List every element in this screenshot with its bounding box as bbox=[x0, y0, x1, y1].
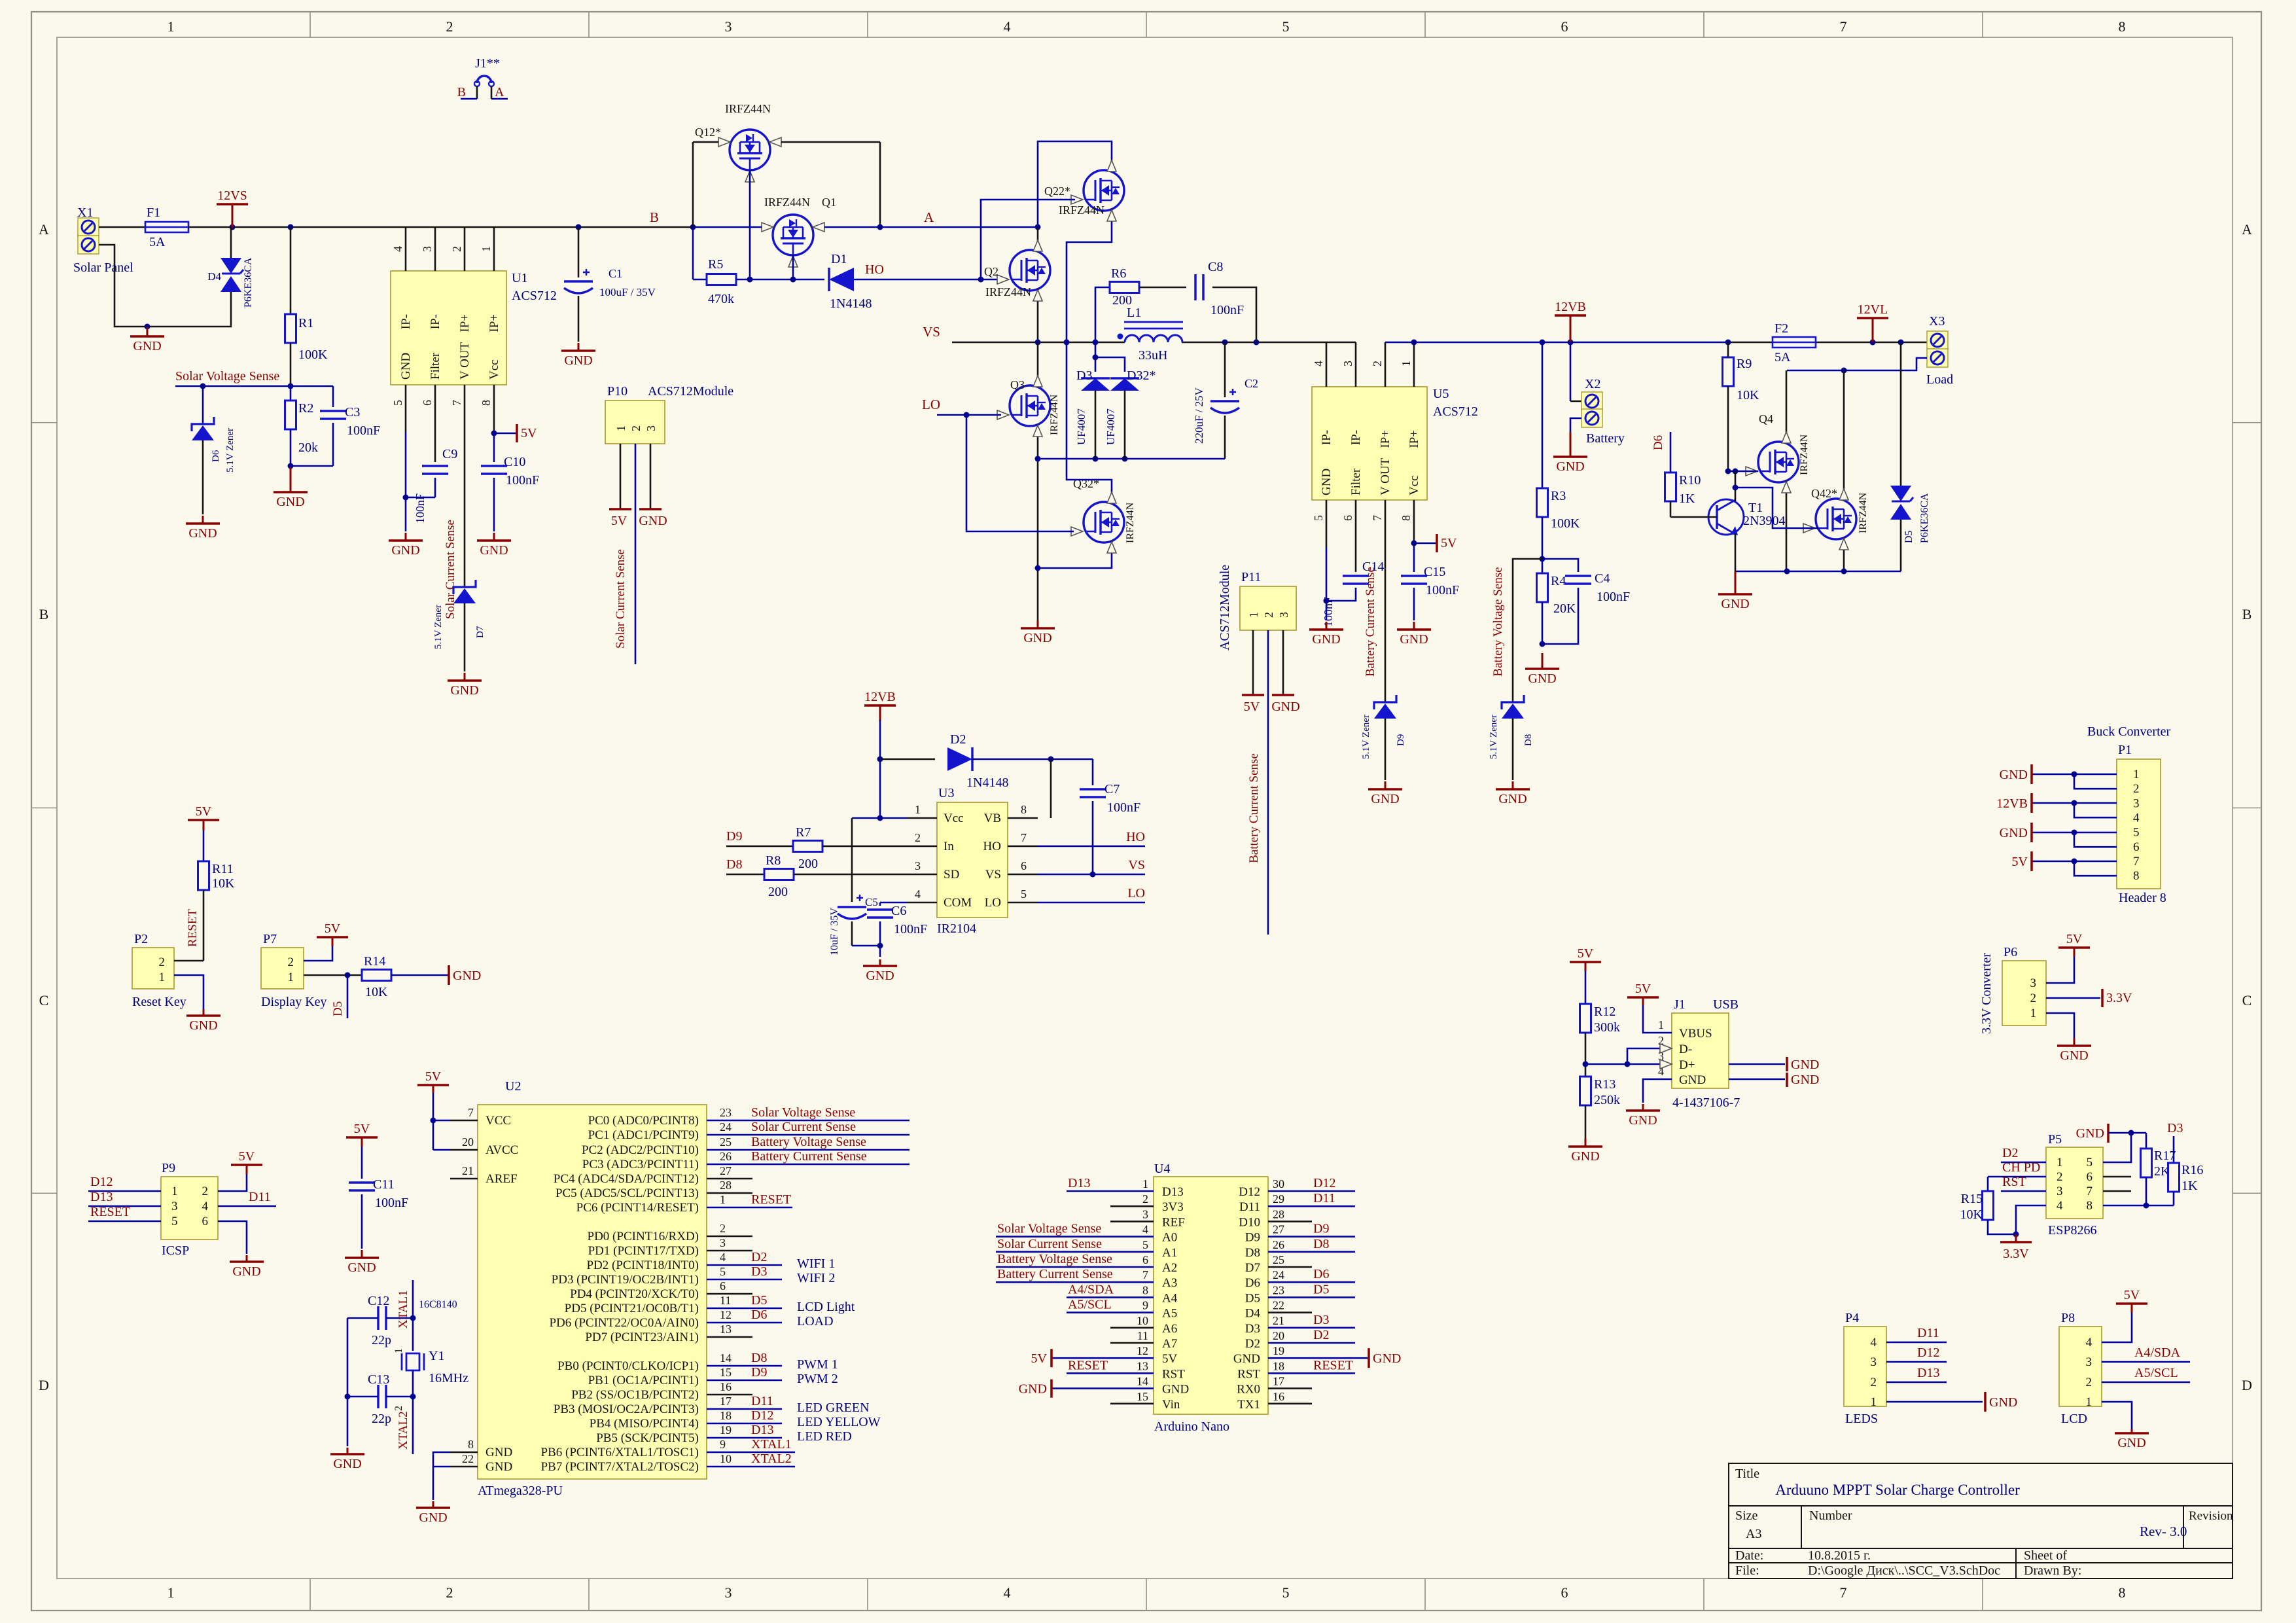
svg-text:21: 21 bbox=[1273, 1314, 1284, 1327]
svg-text:A: A bbox=[39, 221, 49, 238]
svg-text:18: 18 bbox=[1273, 1359, 1284, 1372]
U5 pin 5 GND bbox=[1326, 500, 1328, 547]
svg-text:7: 7 bbox=[1371, 515, 1384, 521]
svg-text:D12: D12 bbox=[1313, 1176, 1335, 1190]
svg-text:21: 21 bbox=[462, 1164, 474, 1177]
ground GND below P8 bbox=[2131, 1429, 2133, 1433]
svg-text:USB: USB bbox=[1713, 997, 1739, 1012]
svg-text:100nF: 100nF bbox=[1597, 590, 1630, 604]
svg-text:7: 7 bbox=[1840, 1584, 1847, 1601]
svg-text:PB1 (OC1A/PCINT1): PB1 (OC1A/PCINT1) bbox=[588, 1374, 699, 1387]
IC U4 Arduino Nano bbox=[1154, 1177, 1268, 1414]
connector P9 ICSP bbox=[161, 1177, 218, 1240]
svg-text:PC6 (PCINT14/RESET): PC6 (PCINT14/RESET) bbox=[576, 1201, 699, 1215]
svg-text:100nF: 100nF bbox=[1107, 800, 1140, 815]
svg-text:D11: D11 bbox=[1313, 1191, 1335, 1205]
ground GND under C15 bbox=[1413, 622, 1415, 630]
svg-text:D2: D2 bbox=[751, 1250, 767, 1264]
IC U5 ACS712 bbox=[1312, 387, 1427, 500]
svg-text:L1: L1 bbox=[1127, 306, 1141, 320]
MOSFET Q42 IRFZ44N bbox=[1816, 499, 1856, 539]
svg-text:10K: 10K bbox=[212, 876, 235, 891]
svg-text:IP-: IP- bbox=[1320, 430, 1333, 445]
svg-text:10uF / 35V: 10uF / 35V bbox=[829, 908, 840, 955]
svg-text:Buck Converter: Buck Converter bbox=[2087, 724, 2171, 739]
svg-text:GND: GND bbox=[2076, 1126, 2104, 1141]
svg-text:3: 3 bbox=[171, 1200, 178, 1213]
svg-text:5V: 5V bbox=[425, 1069, 442, 1084]
svg-text:3.3V Converter: 3.3V Converter bbox=[1979, 953, 1994, 1034]
wire Q1 channel on main rail bbox=[759, 226, 762, 228]
svg-text:2: 2 bbox=[288, 955, 294, 969]
svg-text:LO: LO bbox=[985, 896, 1001, 910]
U5 pin 2 IP+ bbox=[1385, 342, 1386, 387]
svg-text:17: 17 bbox=[1273, 1375, 1284, 1388]
svg-text:PB5 (SCK/PCINT5): PB5 (SCK/PCINT5) bbox=[596, 1431, 699, 1445]
svg-text:XTAL1: XTAL1 bbox=[397, 1290, 410, 1329]
svg-text:C2: C2 bbox=[1245, 377, 1258, 390]
ground GND below P2 bbox=[203, 1009, 205, 1016]
svg-text:22p: 22p bbox=[372, 1412, 391, 1426]
MOSFET Q2 IRFZ44N bbox=[1010, 250, 1050, 291]
svg-text:GND: GND bbox=[189, 1018, 217, 1033]
svg-text:PB2 (SS/OC1B/PCINT2): PB2 (SS/OC1B/PCINT2) bbox=[571, 1388, 699, 1402]
svg-text:5.1V Zener: 5.1V Zener bbox=[433, 605, 444, 649]
svg-text:Q3: Q3 bbox=[1010, 378, 1025, 391]
svg-text:200: 200 bbox=[1112, 293, 1132, 308]
svg-text:Q4: Q4 bbox=[1759, 412, 1773, 425]
svg-text:GND: GND bbox=[1629, 1113, 1657, 1128]
svg-text:GND: GND bbox=[1312, 632, 1340, 647]
svg-text:VB: VB bbox=[984, 811, 1001, 825]
svg-text:Solar Current Sense: Solar Current Sense bbox=[614, 549, 627, 649]
svg-text:HO: HO bbox=[865, 262, 884, 277]
svg-text:2N3904: 2N3904 bbox=[1743, 514, 1785, 528]
svg-text:5: 5 bbox=[2087, 1156, 2093, 1169]
net label D11 wire at P4 bbox=[1886, 1342, 1947, 1344]
svg-text:LCD Light: LCD Light bbox=[797, 1300, 855, 1314]
wire P9 pin6 to ground bbox=[218, 1221, 247, 1254]
svg-text:P5: P5 bbox=[2048, 1132, 2062, 1147]
svg-text:ACS712Module: ACS712Module bbox=[1218, 565, 1232, 651]
svg-text:1N4148: 1N4148 bbox=[966, 776, 1008, 790]
svg-text:D8: D8 bbox=[751, 1351, 767, 1365]
svg-text:IRFZ44N: IRFZ44N bbox=[1858, 492, 1869, 533]
wire P8 pin4 to 5V bbox=[2102, 1313, 2132, 1342]
wire X2 pin2 to ground bbox=[1570, 418, 1581, 432]
P1 even pin wire bbox=[2074, 861, 2117, 876]
svg-text:6: 6 bbox=[2087, 1170, 2093, 1184]
title block bbox=[1729, 1463, 2233, 1578]
svg-text:28: 28 bbox=[720, 1179, 732, 1192]
net RESET wire from R11 to P2 bbox=[203, 890, 205, 961]
P1 odd pin wire with GND bbox=[2032, 832, 2117, 834]
svg-text:11: 11 bbox=[1137, 1329, 1148, 1342]
svg-text:8: 8 bbox=[1142, 1283, 1148, 1296]
svg-text:C3: C3 bbox=[345, 405, 360, 419]
svg-text:RESET: RESET bbox=[751, 1192, 791, 1207]
svg-text:PD5 (PCINT21/OC0B/T1): PD5 (PCINT21/OC0B/T1) bbox=[565, 1302, 699, 1315]
svg-text:23: 23 bbox=[720, 1106, 732, 1119]
power 5V at USB VBUS bbox=[1642, 997, 1644, 1005]
svg-text:1: 1 bbox=[480, 246, 493, 252]
resistor R1 100K bbox=[288, 224, 294, 230]
svg-text:TX1: TX1 bbox=[1237, 1398, 1260, 1412]
ground GND below D8 bbox=[1512, 781, 1514, 789]
power 5V at P7 bbox=[332, 937, 334, 946]
svg-text:D2: D2 bbox=[1245, 1337, 1260, 1351]
svg-text:7: 7 bbox=[1021, 831, 1027, 844]
power 5V above R11 bbox=[203, 820, 205, 830]
svg-text:4: 4 bbox=[2057, 1199, 2063, 1213]
connector P1 Buck Converter Header 8 bbox=[2117, 759, 2161, 889]
ground GND below D9 bbox=[1385, 781, 1386, 789]
svg-text:2: 2 bbox=[1142, 1192, 1148, 1205]
svg-text:20k: 20k bbox=[298, 440, 318, 455]
svg-text:1: 1 bbox=[1658, 1018, 1664, 1031]
svg-text:Filter: Filter bbox=[429, 352, 442, 380]
svg-text:5: 5 bbox=[171, 1215, 178, 1228]
resistor R9 10K bbox=[1723, 357, 1734, 386]
svg-text:J1: J1 bbox=[1674, 997, 1686, 1012]
svg-text:C8: C8 bbox=[1208, 260, 1223, 274]
svg-text:U3: U3 bbox=[938, 786, 954, 800]
svg-text:GND: GND bbox=[480, 543, 508, 558]
svg-text:D11: D11 bbox=[1917, 1326, 1939, 1340]
svg-text:Battery Current Sense: Battery Current Sense bbox=[1247, 753, 1261, 863]
power 5V above P8 bbox=[2131, 1304, 2133, 1313]
svg-text:7: 7 bbox=[2087, 1185, 2093, 1198]
MOSFET Q4 IRFZ44N bbox=[1758, 442, 1799, 482]
svg-text:6: 6 bbox=[1561, 1584, 1568, 1601]
svg-text:3: 3 bbox=[1142, 1207, 1148, 1221]
svg-text:10: 10 bbox=[1137, 1314, 1148, 1327]
svg-text:2: 2 bbox=[450, 246, 463, 252]
svg-text:5V: 5V bbox=[325, 921, 341, 936]
wire Q3 drain from VS rail bbox=[1037, 342, 1039, 374]
svg-text:5V: 5V bbox=[1162, 1352, 1178, 1366]
svg-text:A4: A4 bbox=[1162, 1291, 1178, 1305]
U3 pin 3 SD bbox=[907, 874, 937, 876]
svg-text:PC3 (ADC3/PCINT11): PC3 (ADC3/PCINT11) bbox=[582, 1158, 699, 1171]
svg-text:GND: GND bbox=[1528, 671, 1556, 686]
svg-text:GND: GND bbox=[639, 514, 667, 528]
svg-text:D: D bbox=[39, 1377, 49, 1393]
svg-text:Vcc: Vcc bbox=[1407, 475, 1421, 495]
net label D5 wire at P7 bbox=[347, 975, 349, 1018]
svg-text:A0: A0 bbox=[1162, 1231, 1177, 1245]
ground GND right of R14 bbox=[448, 965, 450, 985]
svg-text:D8: D8 bbox=[726, 857, 742, 872]
capacitor C8 100nF snubber bbox=[1139, 287, 1186, 289]
transistor T1 2N3904 bbox=[1708, 499, 1744, 535]
crystal Y1 16MHz bbox=[406, 1353, 419, 1370]
svg-text:RST: RST bbox=[2002, 1175, 2026, 1189]
svg-text:PC4 (ADC4/SDA/PCINT12): PC4 (ADC4/SDA/PCINT12) bbox=[554, 1172, 699, 1186]
connector P8 LCD bbox=[2059, 1327, 2102, 1406]
svg-text:D11: D11 bbox=[1239, 1200, 1260, 1214]
U1 pin 2 IP+ bbox=[464, 227, 466, 271]
svg-text:1: 1 bbox=[168, 18, 175, 35]
ground GND under U1 pin5 bbox=[405, 533, 407, 541]
svg-text:VBUS: VBUS bbox=[1679, 1027, 1712, 1041]
power 3.3V below P5 bbox=[2015, 1234, 2017, 1242]
U5 pin 7 V OUT bbox=[1385, 500, 1386, 547]
svg-text:3: 3 bbox=[1277, 612, 1290, 618]
wire Q4 source to ground rail bbox=[1786, 493, 1788, 571]
svg-text:2: 2 bbox=[629, 425, 643, 431]
svg-text:1: 1 bbox=[168, 1584, 175, 1601]
capacitor C13 22p bbox=[377, 1385, 380, 1408]
wire jumper side A bbox=[491, 98, 508, 100]
svg-text:12VB: 12VB bbox=[864, 690, 896, 704]
capacitor C14 100nF on U5 filter bbox=[1355, 547, 1357, 572]
svg-text:D9: D9 bbox=[1396, 734, 1406, 746]
svg-text:5: 5 bbox=[391, 400, 404, 406]
svg-text:GND: GND bbox=[333, 1457, 361, 1471]
svg-text:C6: C6 bbox=[891, 904, 906, 918]
svg-text:14: 14 bbox=[1137, 1375, 1148, 1388]
U1 pin 5 GND bbox=[405, 385, 407, 432]
svg-text:10: 10 bbox=[720, 1452, 732, 1465]
svg-text:8: 8 bbox=[2087, 1199, 2093, 1213]
svg-text:D7: D7 bbox=[475, 626, 486, 638]
svg-text:4: 4 bbox=[1004, 18, 1011, 35]
svg-text:1: 1 bbox=[2030, 1007, 2037, 1020]
svg-text:5: 5 bbox=[1142, 1238, 1148, 1251]
U1 pin 1 IP+ bbox=[493, 227, 495, 271]
svg-text:4: 4 bbox=[915, 887, 921, 901]
svg-text:8: 8 bbox=[480, 400, 493, 406]
svg-text:GND: GND bbox=[399, 353, 413, 380]
svg-text:Number: Number bbox=[1809, 1508, 1852, 1523]
U3 pin 6 VS bbox=[1008, 874, 1038, 876]
svg-text:D5: D5 bbox=[751, 1293, 767, 1308]
svg-text:LCD: LCD bbox=[2061, 1412, 2087, 1426]
svg-text:GND: GND bbox=[453, 969, 481, 983]
svg-text:REF: REF bbox=[1162, 1215, 1185, 1229]
svg-text:2: 2 bbox=[915, 831, 921, 844]
net label D6 wire bbox=[1670, 432, 1672, 473]
svg-text:GND: GND bbox=[486, 1446, 512, 1459]
capacitor C12 22p bbox=[377, 1306, 380, 1330]
svg-text:15: 15 bbox=[1137, 1390, 1148, 1403]
svg-text:R1: R1 bbox=[298, 316, 313, 330]
svg-text:1K: 1K bbox=[2181, 1179, 2198, 1193]
svg-text:IRFZ44N: IRFZ44N bbox=[725, 102, 771, 115]
U1 pin 3 IP- bbox=[434, 227, 436, 271]
svg-text:B: B bbox=[39, 606, 49, 622]
svg-text:16MHz: 16MHz bbox=[429, 1371, 468, 1385]
svg-text:D2: D2 bbox=[2002, 1146, 2018, 1160]
U3 pin 1 Vcc bbox=[907, 817, 937, 819]
wire U5 GND pin bbox=[1326, 547, 1328, 620]
svg-text:GND: GND bbox=[1019, 1382, 1047, 1397]
wire F1 to 12VS junction and onward to U1 bbox=[188, 226, 693, 228]
svg-text:D9: D9 bbox=[751, 1365, 767, 1380]
svg-text:1: 1 bbox=[614, 425, 627, 431]
svg-text:D6: D6 bbox=[1245, 1276, 1260, 1290]
svg-text:R16: R16 bbox=[2181, 1163, 2203, 1177]
svg-text:D4: D4 bbox=[1245, 1307, 1261, 1321]
svg-text:4: 4 bbox=[1871, 1336, 1877, 1349]
ground GND above R17 bbox=[2107, 1124, 2110, 1143]
svg-text:PC5 (ADC5/SCL/PCINT13): PC5 (ADC5/SCL/PCINT13) bbox=[556, 1186, 699, 1200]
svg-text:IP+: IP+ bbox=[1379, 430, 1392, 448]
svg-text:10K: 10K bbox=[1737, 388, 1759, 402]
svg-text:8: 8 bbox=[468, 1438, 474, 1451]
wire crystal caps common leg bbox=[347, 1318, 349, 1446]
svg-text:2: 2 bbox=[1371, 361, 1384, 366]
wire P2 pin2 bbox=[174, 960, 203, 962]
wire D1 to Q2 gate bbox=[854, 279, 1001, 281]
svg-text:5V: 5V bbox=[354, 1122, 370, 1136]
wire J1 shield grounds bbox=[1729, 1063, 1785, 1065]
P1 even pin wire bbox=[2074, 774, 2117, 789]
svg-text:3V3: 3V3 bbox=[1162, 1200, 1184, 1214]
svg-text:27: 27 bbox=[720, 1164, 732, 1177]
svg-text:25: 25 bbox=[1273, 1253, 1284, 1266]
svg-text:V OUT: V OUT bbox=[1379, 457, 1392, 495]
svg-text:3: 3 bbox=[915, 859, 921, 872]
svg-text:D7: D7 bbox=[1245, 1261, 1260, 1275]
svg-text:5: 5 bbox=[2133, 826, 2140, 840]
svg-text:33uH: 33uH bbox=[1139, 348, 1167, 363]
ground GND right of J1 (GND row) bbox=[1786, 1073, 1788, 1087]
svg-text:25: 25 bbox=[720, 1135, 732, 1149]
wire HO output of U3 bbox=[1038, 846, 1145, 847]
svg-text:28: 28 bbox=[1273, 1207, 1284, 1221]
resistor R3 100K bbox=[1542, 342, 1544, 488]
svg-text:Revision: Revision bbox=[2189, 1509, 2233, 1523]
svg-text:A3: A3 bbox=[1746, 1527, 1761, 1541]
wire Q22 drain loop to node A bbox=[1038, 141, 1112, 227]
connector J1 USB 4-1437106-7 bbox=[1672, 1013, 1729, 1088]
svg-text:GND: GND bbox=[1791, 1073, 1819, 1087]
ground GND below X2 bbox=[1570, 432, 1572, 457]
svg-text:P2: P2 bbox=[134, 932, 148, 946]
U5 pin 1 IP+ bbox=[1413, 342, 1415, 387]
connector P2 Reset Key bbox=[132, 948, 174, 989]
wire X3 return to MOSFET drains bbox=[1787, 358, 1927, 370]
wire P4 pin1 to ground bbox=[1886, 1401, 1983, 1403]
svg-text:X1: X1 bbox=[77, 205, 93, 220]
svg-text:20: 20 bbox=[462, 1135, 474, 1149]
svg-text:PC0 (ADC0/PCINT8): PC0 (ADC0/PCINT8) bbox=[588, 1114, 699, 1128]
net label D2 wire at P5 pin1 bbox=[2001, 1162, 2046, 1164]
svg-text:Solar Voltage Sense: Solar Voltage Sense bbox=[175, 369, 279, 383]
U3 pin 4 COM bbox=[907, 902, 937, 904]
svg-text:5.1V Zener: 5.1V Zener bbox=[225, 428, 236, 473]
svg-text:HO: HO bbox=[983, 840, 1001, 853]
svg-text:GND: GND bbox=[2117, 1436, 2146, 1450]
net Solar Current Sense from U1 VOUT bbox=[464, 432, 466, 587]
TVS diode D4 P6KE36CA bbox=[230, 227, 232, 259]
svg-text:12VL: 12VL bbox=[1858, 302, 1888, 317]
svg-text:GND: GND bbox=[1023, 631, 1051, 645]
svg-text:Title: Title bbox=[1735, 1467, 1759, 1481]
svg-text:GND: GND bbox=[391, 543, 419, 558]
svg-text:P10: P10 bbox=[607, 384, 627, 399]
svg-text:Q12*: Q12* bbox=[695, 126, 721, 139]
svg-text:5V: 5V bbox=[611, 514, 627, 528]
svg-text:7: 7 bbox=[1142, 1268, 1148, 1281]
P10 pin2 wire Solar Current Sense bbox=[635, 444, 637, 664]
svg-text:A7: A7 bbox=[1162, 1337, 1177, 1351]
U3 pin 8 VB bbox=[1008, 817, 1038, 819]
svg-text:RST: RST bbox=[1162, 1367, 1185, 1381]
svg-text:D6: D6 bbox=[751, 1308, 767, 1322]
svg-text:10.8.2015 г.: 10.8.2015 г. bbox=[1808, 1548, 1871, 1563]
svg-text:A: A bbox=[495, 85, 504, 99]
svg-text:5V: 5V bbox=[1441, 536, 1457, 550]
power 12VB bbox=[1570, 315, 1572, 342]
svg-text:Sheet of: Sheet of bbox=[2024, 1548, 2067, 1563]
svg-text:GND: GND bbox=[1320, 469, 1333, 495]
wire Q42 source to ground rail bbox=[1843, 550, 1845, 571]
P1 even pin wire bbox=[2074, 832, 2117, 847]
svg-text:PB6 (PCINT6/XTAL1/TOSC1): PB6 (PCINT6/XTAL1/TOSC1) bbox=[541, 1446, 699, 1459]
svg-text:1: 1 bbox=[720, 1193, 726, 1206]
wire U1 GND pin to ground bbox=[405, 432, 407, 531]
svg-text:ESP8266: ESP8266 bbox=[2048, 1223, 2096, 1238]
svg-text:File:: File: bbox=[1735, 1563, 1759, 1578]
ground GND below crystal caps bbox=[347, 1448, 349, 1454]
svg-text:P8: P8 bbox=[2061, 1311, 2075, 1325]
svg-text:Solar Voltage Sense: Solar Voltage Sense bbox=[997, 1222, 1101, 1236]
svg-text:PWM 1: PWM 1 bbox=[797, 1357, 838, 1372]
svg-text:B: B bbox=[2242, 606, 2252, 622]
svg-text:6: 6 bbox=[1341, 515, 1354, 521]
svg-text:R17: R17 bbox=[2154, 1149, 2176, 1163]
wire to Q42 drain bbox=[1843, 370, 1845, 488]
net XTAL2 wire bbox=[412, 1370, 414, 1454]
ground GND under U5 pin5 bbox=[1326, 622, 1328, 630]
svg-text:IR2104: IR2104 bbox=[937, 921, 976, 936]
svg-text:D3: D3 bbox=[1076, 368, 1092, 383]
svg-text:C7: C7 bbox=[1104, 782, 1120, 796]
svg-text:D13: D13 bbox=[90, 1190, 113, 1204]
svg-text:RESET: RESET bbox=[90, 1205, 130, 1219]
svg-text:Arduino Nano: Arduino Nano bbox=[1154, 1419, 1229, 1434]
wire T1 base bbox=[1670, 516, 1717, 518]
U2 pin 20 AVCC bbox=[450, 1149, 478, 1151]
svg-text:GND: GND bbox=[1371, 792, 1399, 806]
capacitor C9 100nF on U1 filter bbox=[434, 432, 436, 462]
svg-text:GND: GND bbox=[1556, 459, 1584, 474]
svg-text:22: 22 bbox=[1273, 1299, 1284, 1312]
svg-text:3: 3 bbox=[1341, 361, 1354, 366]
svg-text:1N4148: 1N4148 bbox=[830, 296, 872, 311]
connector P4 LEDS bbox=[1844, 1327, 1886, 1406]
svg-text:AVCC: AVCC bbox=[486, 1143, 518, 1157]
svg-text:GND: GND bbox=[2000, 768, 2028, 782]
svg-text:5V: 5V bbox=[2066, 932, 2083, 946]
svg-text:P6KE36CA: P6KE36CA bbox=[1919, 493, 1930, 543]
svg-text:IRFZ44N: IRFZ44N bbox=[985, 285, 1031, 298]
svg-text:U1: U1 bbox=[512, 271, 527, 285]
wire Q42 gate from collector node bbox=[1735, 488, 1818, 528]
P10 pin1 wire to 5V bbox=[620, 444, 622, 509]
svg-text:8: 8 bbox=[2119, 18, 2126, 35]
svg-text:D5: D5 bbox=[1245, 1291, 1260, 1305]
wire node A to Q2/Q22 bbox=[880, 226, 1038, 228]
svg-text:3: 3 bbox=[2133, 796, 2140, 810]
svg-text:Q2: Q2 bbox=[984, 265, 998, 278]
wire Q32 gate from LO bbox=[966, 415, 1074, 531]
wire U3 Vcc line bbox=[852, 817, 907, 819]
svg-text:2: 2 bbox=[2086, 1376, 2093, 1389]
